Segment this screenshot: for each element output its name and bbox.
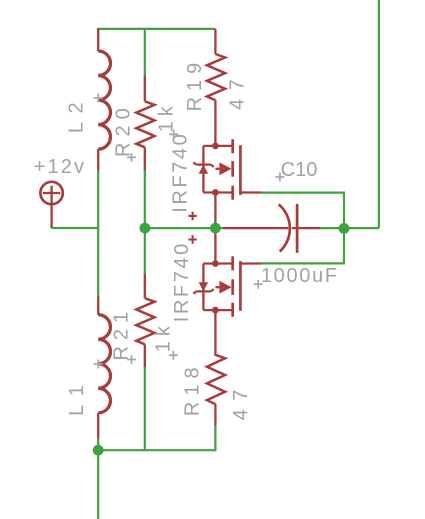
mosfet Q2 IRF740 lower (mirrored) bbox=[193, 228, 261, 356]
origin cross C10 value bbox=[254, 280, 263, 289]
label L1 bbox=[66, 377, 88, 416]
supply +12v P1 bbox=[40, 182, 62, 228]
label 47 R19 bbox=[226, 71, 248, 110]
svg-text:L1: L1 bbox=[66, 377, 88, 416]
origin cross R20 name bbox=[127, 153, 136, 162]
origin cross L1 bbox=[94, 360, 103, 369]
wire R20 bottom / R21 top through node bbox=[144, 170, 146, 275]
label C10 bbox=[281, 159, 318, 181]
svg-text:IRF740: IRF740 bbox=[169, 132, 191, 213]
svg-text:47: 47 bbox=[230, 381, 252, 420]
svg-text:47: 47 bbox=[226, 71, 248, 110]
label R19 bbox=[184, 57, 206, 112]
junction node dot left bbox=[140, 223, 151, 234]
svg-text:1k: 1k bbox=[156, 101, 178, 132]
origin cross R20 value bbox=[169, 130, 178, 139]
wire L1 bottom to edge bbox=[97, 439, 99, 519]
label 1000uF bbox=[261, 265, 339, 287]
label 47 R18 bbox=[230, 381, 252, 420]
svg-text:R19: R19 bbox=[184, 57, 206, 112]
svg-text:L2: L2 bbox=[65, 94, 87, 133]
resistor R20 bbox=[136, 76, 154, 171]
wire capacitor right to right rail bbox=[320, 227, 379, 229]
origin cross C10 name bbox=[275, 173, 284, 182]
label R18 bbox=[182, 361, 204, 416]
origin cross R21 name bbox=[127, 355, 136, 364]
origin cross L2 bbox=[94, 94, 103, 103]
svg-text:IRF740: IRF740 bbox=[171, 241, 193, 322]
label 1k R21 bbox=[153, 321, 175, 352]
inductor L2 bbox=[98, 29, 110, 171]
svg-text:R20: R20 bbox=[113, 102, 135, 157]
svg-text:1k: 1k bbox=[153, 321, 175, 352]
label R20 bbox=[113, 102, 135, 157]
origin cross upper IRF740 bbox=[188, 212, 196, 220]
origin cross R21 value bbox=[169, 351, 178, 360]
mosfet Q1 IRF740 upper bbox=[193, 100, 261, 228]
junction node dot bottom bbox=[93, 445, 104, 456]
svg-text:1000uF: 1000uF bbox=[261, 265, 339, 287]
resistor R18 bbox=[207, 355, 225, 426]
junction node dot right bbox=[339, 223, 350, 234]
svg-text:R21: R21 bbox=[110, 306, 132, 361]
wire upper gate to node bbox=[261, 193, 344, 229]
label 1k R20 bbox=[156, 101, 178, 132]
wire R21 bottom lead bbox=[144, 367, 146, 451]
wire bottom rail with R18 corner bbox=[98, 425, 215, 450]
label L2 bbox=[65, 94, 87, 133]
origin cross lower IRF740 bbox=[188, 235, 196, 243]
resistor R19 bbox=[207, 29, 225, 100]
capacitor C10 bbox=[223, 204, 320, 253]
wire top rail bbox=[97, 28, 215, 30]
label IRF740 upper bbox=[169, 132, 191, 213]
svg-text:C10: C10 bbox=[281, 159, 318, 181]
wire left rail L2-L1 bbox=[97, 170, 99, 297]
wire +12v supply to rail bbox=[52, 227, 99, 229]
wire right rail up bbox=[378, 0, 380, 228]
svg-text:R18: R18 bbox=[182, 361, 204, 416]
wire lower gate to node bbox=[261, 228, 344, 263]
junction node dot middle bbox=[210, 223, 221, 234]
resistor R21 bbox=[136, 274, 154, 367]
label +12v bbox=[34, 156, 86, 178]
label IRF740 lower bbox=[171, 241, 193, 322]
svg-text:+12v: +12v bbox=[34, 156, 86, 178]
label R21 bbox=[110, 306, 132, 361]
wire R20 top lead bbox=[144, 29, 146, 76]
wire mid rail to capacitor bbox=[145, 227, 224, 229]
inductor L1 bbox=[98, 297, 110, 439]
